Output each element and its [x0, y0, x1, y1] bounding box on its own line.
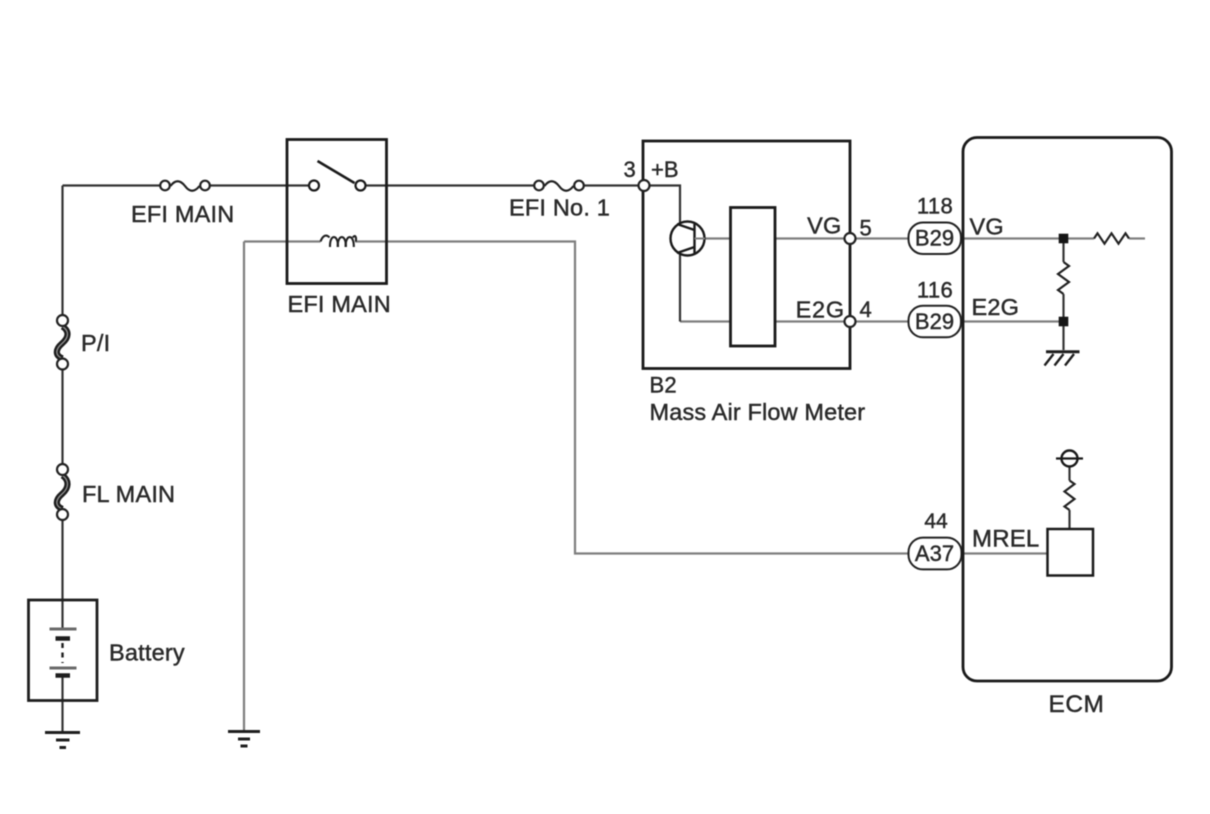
svg-text:P/I: P/I	[81, 330, 110, 356]
svg-text:E2G: E2G	[796, 297, 845, 323]
svg-text:B29: B29	[915, 226, 954, 251]
svg-text:EFI MAIN: EFI MAIN	[288, 291, 391, 317]
svg-text:118: 118	[917, 194, 953, 219]
svg-text:Mass Air Flow Meter: Mass Air Flow Meter	[650, 399, 866, 425]
svg-text:5: 5	[860, 216, 872, 241]
svg-text:FL MAIN: FL MAIN	[82, 481, 175, 507]
svg-text:E2G: E2G	[972, 294, 1020, 320]
svg-text:B2: B2	[650, 373, 677, 398]
svg-text:EFI MAIN: EFI MAIN	[131, 201, 234, 227]
svg-text:ECM: ECM	[1049, 691, 1105, 718]
svg-text:116: 116	[917, 278, 953, 303]
svg-text:44: 44	[924, 510, 948, 533]
svg-text:MREL: MREL	[972, 526, 1039, 553]
svg-text:VG: VG	[970, 214, 1004, 240]
svg-text:A37: A37	[915, 541, 954, 566]
svg-text:4: 4	[860, 297, 872, 322]
svg-text:3: 3	[624, 157, 636, 182]
svg-text:Battery: Battery	[109, 640, 185, 666]
svg-text:EFI No. 1: EFI No. 1	[509, 195, 610, 221]
svg-text:+B: +B	[651, 157, 679, 182]
svg-text:B29: B29	[915, 309, 954, 334]
svg-text:VG: VG	[807, 213, 841, 239]
